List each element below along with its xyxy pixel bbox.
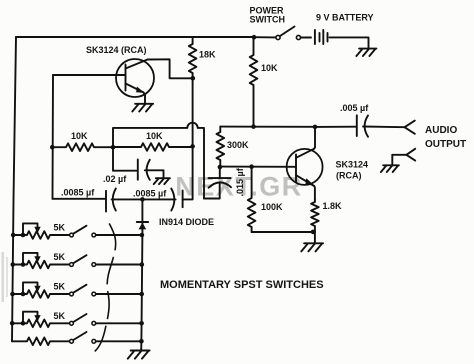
label R1 10K bbox=[261, 63, 278, 73]
svg-text:10K: 10K bbox=[261, 63, 278, 73]
wire supply mid rail bbox=[220, 126, 315, 128]
wire Q1 base bbox=[53, 74, 126, 76]
ground (C3) bbox=[154, 178, 170, 184]
label 5K row 1 bbox=[54, 223, 66, 233]
wire switch-bank right rail bbox=[141, 235, 142, 350]
label POWER SWITCH bbox=[250, 6, 286, 25]
battery B1 9V bbox=[315, 30, 328, 44]
wire Q2 collector bbox=[314, 127, 315, 149]
wire row 2 to right rail bbox=[96, 264, 142, 266]
potentiometer R 5K row 2 bbox=[23, 253, 53, 268]
svg-text:300K: 300K bbox=[227, 140, 249, 150]
resistor R1 10K (supply divider) bbox=[250, 37, 258, 126]
node left rail row 3 bbox=[10, 292, 15, 297]
node A (twin-T left) bbox=[50, 145, 55, 150]
svg-text:OUTPUT: OUTPUT bbox=[425, 139, 466, 150]
wire node-A to C1 bbox=[53, 198, 106, 200]
resistor R6 100K bbox=[248, 167, 256, 232]
wire collector to C6 bbox=[315, 126, 356, 128]
node pot wiper tie row 2 bbox=[21, 262, 26, 267]
node emitter-resistor bottom bbox=[311, 230, 316, 235]
node right rail row 5 bbox=[139, 339, 144, 344]
svg-text:IN914 DIODE: IN914 DIODE bbox=[159, 217, 214, 227]
ground (audio jack) bbox=[381, 165, 399, 172]
wire midpoint to C4 bbox=[142, 198, 175, 200]
wire C6 to output jack bbox=[363, 126, 405, 129]
ground (Q1 emitter) bbox=[132, 104, 153, 112]
node left rail row 2 bbox=[11, 262, 16, 267]
wire row 1 to right rail bbox=[96, 234, 142, 236]
wire row 4 to right rail bbox=[96, 322, 142, 324]
wire left supply rail bbox=[12, 37, 16, 341]
wire battery to ground bbox=[330, 37, 369, 47]
label R5 300K bbox=[227, 140, 249, 150]
label C5 .015 uF (rotated) bbox=[235, 167, 245, 196]
svg-text:.0085 µf: .0085 µf bbox=[61, 188, 95, 198]
capacitor C6 .005uF bbox=[357, 115, 368, 137]
wire twin-T midpoint to C5 (hops over rail) bbox=[113, 123, 204, 199]
capacitor C3 .02uF bbox=[138, 160, 150, 180]
potentiometer R 5K row 1 bbox=[23, 223, 53, 238]
svg-text:10K: 10K bbox=[146, 131, 163, 141]
svg-text:18K: 18K bbox=[199, 50, 216, 60]
label R2 18K bbox=[199, 50, 216, 60]
ground (switch bank) bbox=[128, 351, 150, 359]
mechanical link (ganged switches, dashed) bbox=[94, 224, 116, 352]
node power-switch junction bbox=[252, 35, 257, 40]
label C6 .005 uF bbox=[340, 103, 369, 113]
diode D1 IN914 bbox=[137, 199, 148, 234]
node left rail row 1 bbox=[11, 233, 16, 238]
wire node-A vertical bbox=[52, 75, 55, 199]
wire row 5 to right rail bbox=[96, 340, 142, 342]
node R1 bottom junction bbox=[251, 124, 256, 129]
svg-text:5K: 5K bbox=[54, 252, 66, 262]
svg-text:10K: 10K bbox=[71, 131, 88, 141]
node 100K top bbox=[249, 164, 254, 169]
svg-text:.02 µf: .02 µf bbox=[103, 174, 127, 184]
label R4 10K bbox=[146, 131, 163, 141]
svg-text:5K: 5K bbox=[54, 282, 66, 292]
svg-text:.0085 µf: .0085 µf bbox=[133, 189, 167, 199]
node right rail row 2 bbox=[140, 262, 145, 267]
node right rail row 1 bbox=[140, 233, 145, 238]
svg-text:1.8K: 1.8K bbox=[323, 201, 343, 211]
node left rail row 4 bbox=[10, 321, 15, 326]
wire C3 to ground bbox=[145, 170, 164, 177]
wire midpoint to C3 bbox=[113, 147, 137, 170]
node pot wiper tie row 3 bbox=[21, 292, 26, 297]
label MOMENTARY SPST SWITCHES bbox=[160, 279, 324, 291]
transistor Q1 SK3124 bbox=[116, 59, 154, 97]
svg-text:SK3124: SK3124 bbox=[336, 160, 369, 170]
capacitor C4 .0085uF bbox=[171, 189, 183, 211]
wire Q2 emitter bbox=[313, 186, 316, 200]
svg-text:MOMENTARY SPST SWITCHES: MOMENTARY SPST SWITCHES bbox=[160, 279, 324, 291]
wire sleeve to ground bbox=[391, 155, 393, 165]
svg-text:5K: 5K bbox=[54, 311, 66, 321]
transistor Q2 SK3124 bbox=[287, 149, 323, 186]
connector audio output (tip) bbox=[405, 121, 415, 134]
node Q1 collector / 18K bbox=[191, 76, 196, 81]
switch row 5 (momentary SPST) bbox=[53, 332, 96, 343]
switch S1 POWER (SPST) bbox=[256, 27, 311, 40]
label 5K row 2 bbox=[54, 252, 66, 262]
svg-text:5K: 5K bbox=[54, 223, 66, 233]
switch row 2 (momentary SPST) bbox=[53, 255, 96, 266]
label AUDIO OUTPUT bbox=[425, 125, 466, 150]
wire row 3 to right rail bbox=[96, 293, 142, 295]
resistor R3 10K (twin-T left) bbox=[52, 143, 113, 151]
label Q2 SK3124 bbox=[336, 160, 369, 181]
node Q2 collector junction bbox=[313, 125, 318, 130]
svg-text:.015 µf: .015 µf bbox=[235, 167, 245, 196]
wire emitter/100K bottom bbox=[252, 231, 315, 233]
resistor R4 10K (twin-T right) bbox=[113, 143, 193, 151]
wire oscillator right rail bbox=[183, 78, 192, 199]
wire row 1 left stub bbox=[13, 234, 26, 236]
label R6 100K bbox=[261, 202, 283, 212]
potentiometer R 5K row 4 bbox=[23, 312, 53, 327]
svg-text:SWITCH: SWITCH bbox=[250, 15, 286, 25]
label C4 .0085 uF bbox=[133, 189, 167, 199]
node capacitor midpoint bbox=[140, 197, 145, 202]
svg-text:.005 µf: .005 µf bbox=[340, 103, 369, 113]
svg-text:SK3124 (RCA): SK3124 (RCA) bbox=[86, 45, 147, 55]
node right rail row 3 bbox=[139, 292, 144, 297]
label 5K row 3 bbox=[54, 282, 66, 292]
wire Q1 emitter bbox=[143, 92, 145, 102]
label Q1 SK3124 (RCA) bbox=[86, 45, 147, 55]
node pot wiper tie row 4 bbox=[21, 321, 26, 326]
node pot wiper tie row 1 bbox=[21, 233, 26, 238]
wire C1 to midpoint bbox=[112, 198, 143, 200]
label R7 1.8K bbox=[323, 201, 343, 211]
capacitor C1 .0085uF bbox=[106, 189, 116, 212]
label 9V BATTERY bbox=[316, 13, 374, 23]
resistor R7 1.8K bbox=[311, 200, 319, 233]
resistor row 5 (fixed) bbox=[12, 338, 53, 346]
label R3 10K bbox=[71, 131, 88, 141]
wire bottom node to ground bbox=[314, 232, 316, 242]
svg-text:9 V BATTERY: 9 V BATTERY bbox=[316, 13, 374, 23]
wire top supply rail bbox=[16, 36, 254, 38]
svg-text:(RCA): (RCA) bbox=[336, 171, 362, 181]
svg-text:100K: 100K bbox=[261, 202, 283, 212]
node right rail row 4 bbox=[139, 321, 144, 326]
resistor R2 18K bbox=[189, 37, 197, 78]
resistor R5 300K bbox=[217, 127, 225, 167]
switch row 4 (momentary SPST) bbox=[53, 314, 96, 325]
node twin-T right / rail bbox=[190, 144, 195, 149]
capacitor C5 .015uF bbox=[204, 167, 231, 199]
ground (Q2 emitter network) bbox=[301, 243, 323, 251]
switch row 3 (momentary SPST) bbox=[53, 285, 96, 296]
wire row 3 left stub bbox=[13, 293, 27, 295]
label D1 IN914 DIODE bbox=[159, 217, 214, 227]
label C3 .02 uF bbox=[103, 174, 127, 184]
switch row 1 (momentary SPST) bbox=[53, 226, 96, 237]
potentiometer R 5K row 3 bbox=[23, 282, 53, 297]
wire Q1 collector bbox=[148, 59, 193, 78]
node twin-T midpoint bbox=[111, 145, 116, 150]
svg-text:AUDIO: AUDIO bbox=[425, 125, 457, 136]
connector audio output (sleeve) bbox=[392, 149, 415, 161]
label 5K row 4 bbox=[54, 311, 66, 321]
node Q2 base node bbox=[218, 165, 223, 170]
wire Q2 base bbox=[220, 166, 296, 168]
wire row 2 left stub bbox=[13, 264, 26, 266]
ground (battery) bbox=[356, 49, 376, 56]
wire row 4 left stub bbox=[12, 322, 26, 324]
label C1 .0085 uF bbox=[61, 188, 95, 198]
